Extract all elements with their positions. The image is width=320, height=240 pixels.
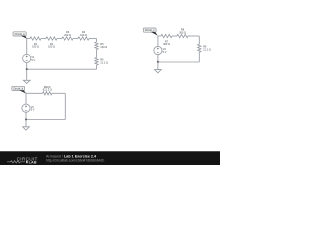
ground (155, 62, 162, 73)
resistor REQ1 (43, 85, 53, 95)
wire (27, 38, 30, 40)
wire (96, 65, 98, 69)
svg-text:Circuit_b: Circuit_b (13, 87, 23, 90)
resistor R4 (78, 30, 89, 40)
svg-text:100 Ω: 100 Ω (100, 45, 107, 49)
wire (89, 38, 97, 40)
footer title text (46, 154, 104, 162)
svg-text:Circuit_c: Circuit_c (145, 29, 155, 32)
svg-text:Circuit_a: Circuit_a (15, 33, 25, 36)
node Circuit_a flag (13, 32, 27, 39)
svg-text:LAB: LAB (29, 160, 37, 164)
svg-text:5 V: 5 V (163, 50, 167, 54)
footer bar top edge (0, 151, 220, 153)
svg-text:100 Ω: 100 Ω (32, 45, 39, 49)
junction (157, 61, 159, 63)
voltage source V3 (154, 46, 167, 54)
svg-text:300 Ω: 300 Ω (163, 42, 170, 46)
wire (52, 92, 65, 94)
svg-text:100 Ω: 100 Ω (48, 45, 55, 49)
wire (26, 39, 28, 55)
wire (158, 61, 199, 63)
resistor R8 (177, 28, 188, 38)
wire (157, 36, 159, 46)
svg-text:21.2 Ω: 21.2 Ω (203, 47, 211, 51)
wire (188, 35, 199, 37)
svg-text:200 Ω: 200 Ω (64, 33, 71, 37)
wire (27, 68, 97, 70)
wire (96, 39, 98, 43)
svg-text:300 Ω: 300 Ω (179, 30, 186, 34)
svg-text:21.2 Ω: 21.2 Ω (100, 60, 108, 64)
resistor R1 (30, 37, 41, 49)
node Circuit_b flag (12, 86, 26, 93)
svg-text:621.2 Ω: 621.2 Ω (43, 88, 52, 92)
resistor R9 (198, 44, 211, 52)
wire (25, 93, 27, 104)
wire (41, 38, 46, 40)
wire (157, 55, 159, 62)
svg-text:5 V: 5 V (31, 58, 35, 62)
voltage source V1 (23, 54, 36, 62)
junction (26, 68, 28, 70)
resistor R5 (95, 42, 107, 50)
resistor R2 (46, 37, 57, 49)
resistor R3 (62, 30, 73, 40)
junction (25, 119, 27, 121)
svg-text:5 V: 5 V (31, 108, 35, 112)
svg-text:100 Ω: 100 Ω (80, 33, 87, 37)
wire (26, 63, 28, 70)
wire (172, 35, 177, 37)
node Circuit_c flag (143, 28, 158, 36)
wire (64, 93, 66, 119)
wire (198, 52, 200, 62)
svg-text:http://circuitlab.com/c6bd47db: http://circuitlab.com/c6bd47dbb8nb42b (46, 158, 104, 162)
wire (57, 38, 62, 40)
CircuitLab logo (7, 156, 38, 164)
ground (23, 69, 30, 83)
wire (198, 36, 200, 44)
wire (26, 119, 65, 121)
ground (23, 120, 30, 131)
wire (73, 38, 78, 40)
resistor R6 (95, 58, 108, 66)
wire (96, 50, 98, 58)
wire (158, 35, 161, 37)
wire (26, 92, 43, 94)
voltage source V2 (22, 104, 35, 112)
resistor R7 (161, 34, 172, 46)
footer bar (0, 151, 220, 165)
wire (25, 112, 27, 119)
